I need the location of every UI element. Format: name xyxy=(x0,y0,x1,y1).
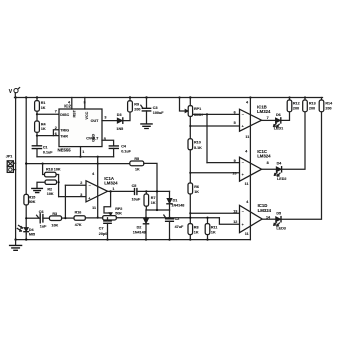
capacitor C5 xyxy=(132,184,141,202)
resistor R8 xyxy=(188,217,199,239)
wire bottom ground bus xyxy=(16,239,251,241)
svg-text:R15: R15 xyxy=(29,196,36,200)
svg-text:9: 9 xyxy=(234,159,236,163)
svg-text:+: + xyxy=(88,196,90,200)
svg-text:1N5: 1N5 xyxy=(116,127,123,131)
wire R1 to R4 with DISC tap xyxy=(36,111,38,121)
wire R16 to RP2 xyxy=(85,217,102,219)
svg-text:R2: R2 xyxy=(47,188,52,192)
svg-text:NE555: NE555 xyxy=(58,147,72,152)
wire C6 to R3 xyxy=(43,217,50,219)
wire to IC1A plus input xyxy=(59,196,86,198)
LED D4 LED2 xyxy=(274,162,286,181)
resistor R15 xyxy=(24,194,36,205)
resistor R7 xyxy=(144,191,156,210)
diode D2 1N4148 xyxy=(133,210,149,240)
wire TRIG loop xyxy=(53,130,59,136)
svg-text:−: − xyxy=(242,161,244,165)
svg-text:1uF: 1uF xyxy=(40,225,47,229)
wire detector node y210 xyxy=(146,209,170,211)
svg-text:11: 11 xyxy=(92,206,96,210)
svg-text:50K: 50K xyxy=(29,200,36,204)
svg-text:50K: 50K xyxy=(115,211,122,215)
svg-text:13: 13 xyxy=(233,210,237,214)
svg-text:LM324: LM324 xyxy=(104,181,118,186)
wire rail x=26 below R15 xyxy=(25,205,27,227)
ground bottom-left xyxy=(10,240,22,251)
svg-text:R11: R11 xyxy=(211,225,218,229)
svg-text:R5: R5 xyxy=(134,157,139,161)
photodiode D4 MI5 xyxy=(17,225,35,236)
node junction dots on top rail xyxy=(14,96,306,98)
svg-text:1: 1 xyxy=(112,187,114,191)
svg-text:10: 10 xyxy=(232,171,236,175)
svg-text:20p0: 20p0 xyxy=(99,232,107,236)
svg-text:0.1uF: 0.1uF xyxy=(121,150,131,154)
svg-text:DISC: DISC xyxy=(60,113,69,117)
svg-text:JP1: JP1 xyxy=(6,155,13,159)
wire DISC tap xyxy=(37,113,59,115)
potentiometer RP1 500K xyxy=(180,98,204,117)
resistor R10 xyxy=(188,139,202,150)
svg-text:5.1K: 5.1K xyxy=(194,146,202,150)
potentiometer RP2 50K xyxy=(103,207,123,220)
svg-text:−: − xyxy=(242,210,244,214)
resistor R3 xyxy=(49,212,61,228)
wire to IC1C pin9 xyxy=(207,162,240,164)
wire IC1A minus input xyxy=(65,184,86,186)
svg-text:RST: RST xyxy=(72,109,76,117)
svg-text:−: − xyxy=(242,113,244,117)
svg-text:1K: 1K xyxy=(211,230,216,234)
svg-text:100uF: 100uF xyxy=(153,111,164,115)
wire 555 pin8 stub xyxy=(84,98,86,110)
wire RP1 to comparator bus xyxy=(193,113,240,115)
svg-text:3: 3 xyxy=(80,193,82,197)
svg-text:8: 8 xyxy=(267,161,269,165)
svg-text:10uF: 10uF xyxy=(132,197,141,201)
svg-text:12: 12 xyxy=(233,220,237,224)
svg-text:R1: R1 xyxy=(41,101,46,105)
wire IC1A power vertical x97.7 xyxy=(97,157,99,218)
resistor R1 xyxy=(35,98,46,112)
wire R2 left to ground xyxy=(37,182,45,188)
svg-text:1K: 1K xyxy=(41,106,46,110)
resistor R9 xyxy=(128,98,141,113)
wire bus B xyxy=(26,163,130,165)
wire IC1A output xyxy=(108,190,135,192)
svg-text:1K: 1K xyxy=(135,167,140,171)
svg-text:7: 7 xyxy=(55,110,57,114)
svg-text:D2: D2 xyxy=(137,226,142,230)
wire rail x=26 upper segment xyxy=(25,98,27,195)
svg-text:R18 10K: R18 10K xyxy=(46,168,61,172)
resistor R4 xyxy=(35,121,47,132)
svg-text:200: 200 xyxy=(293,107,299,111)
svg-text:7: 7 xyxy=(267,116,269,120)
svg-text:C1: C1 xyxy=(43,145,48,149)
capacitor C4 xyxy=(102,140,132,156)
svg-text:+: + xyxy=(242,223,244,227)
svg-text:R7: R7 xyxy=(151,196,156,200)
svg-text:1N4148: 1N4148 xyxy=(171,204,184,208)
resistor R5 xyxy=(130,157,144,171)
wire LED1 to R12 xyxy=(281,112,290,121)
wire 555 pin4 stub xyxy=(71,98,73,110)
wire LED2 to R13 xyxy=(282,112,305,170)
wire x65 vertical to signal bus xyxy=(64,185,66,218)
wire to IC1C pin10 xyxy=(190,172,239,174)
svg-text:47uF: 47uF xyxy=(175,225,184,229)
resistor R6 xyxy=(188,183,199,194)
svg-text:2: 2 xyxy=(80,181,82,185)
op-amp IC1C xyxy=(232,149,271,186)
wire IC1B output xyxy=(262,119,276,121)
svg-text:6: 6 xyxy=(234,111,236,115)
svg-text:R3: R3 xyxy=(52,212,57,216)
wire LM324 power vertical xyxy=(249,98,251,240)
svg-text:200: 200 xyxy=(325,107,331,111)
svg-text:+: + xyxy=(242,173,244,177)
wire R4 to C1 with THR tap xyxy=(36,132,38,145)
svg-text:D6: D6 xyxy=(276,113,281,117)
op-amp IC1A xyxy=(80,172,118,210)
svg-text:LED1: LED1 xyxy=(274,127,283,131)
capacitor C6 xyxy=(37,210,48,229)
svg-text:THR: THR xyxy=(60,135,68,139)
wire R3 to R16 xyxy=(62,217,74,219)
svg-text:LM324: LM324 xyxy=(257,109,271,114)
wire rail x=26 bottom xyxy=(25,234,27,240)
op-amp IC1B xyxy=(234,101,271,140)
svg-text:10K: 10K xyxy=(51,224,58,228)
svg-text:10K: 10K xyxy=(47,192,54,196)
svg-text:1N4148: 1N4148 xyxy=(133,231,146,235)
svg-text:R12: R12 xyxy=(293,102,300,106)
svg-text:C2: C2 xyxy=(175,217,180,221)
feedback loop to RP2 wiper xyxy=(104,191,111,213)
svg-text:2: 2 xyxy=(55,126,57,130)
svg-text:1K: 1K xyxy=(194,190,199,194)
svg-text:D3: D3 xyxy=(117,113,122,117)
svg-text:LM324: LM324 xyxy=(257,154,271,159)
wire D3 to R9 xyxy=(123,112,130,121)
svg-text:−: − xyxy=(89,184,91,188)
wire R5 right corner down xyxy=(144,163,157,210)
resistor R16 xyxy=(74,210,85,227)
wire bus corner to IC1D pin12 xyxy=(219,218,239,225)
svg-text:3: 3 xyxy=(104,116,106,120)
capacitor C2 electrolytic xyxy=(164,210,184,240)
wire 555 OUT xyxy=(102,120,117,122)
svg-text:GND: GND xyxy=(92,133,96,142)
resistor R11 xyxy=(205,217,217,239)
svg-text:R6: R6 xyxy=(194,185,199,189)
resistor R14 xyxy=(319,98,333,112)
LED D5 LED3 xyxy=(274,212,286,231)
svg-text:C6: C6 xyxy=(39,210,44,214)
wire to IC1D pin13 xyxy=(190,212,239,214)
svg-text:6: 6 xyxy=(55,132,57,136)
svg-text:1: 1 xyxy=(82,150,84,154)
capacitor C3 electrolytic xyxy=(141,98,164,124)
svg-text:LED3: LED3 xyxy=(276,227,285,231)
svg-text:200: 200 xyxy=(134,107,140,111)
svg-text:0.1uF: 0.1uF xyxy=(43,150,53,154)
wire R6 down with pin13 tap xyxy=(189,194,191,217)
svg-text:200: 200 xyxy=(309,107,315,111)
svg-text:1K: 1K xyxy=(151,201,156,205)
resistor R2 xyxy=(45,180,57,196)
svg-text:R16: R16 xyxy=(75,210,82,214)
svg-text:47K: 47K xyxy=(75,223,82,227)
wire ground bus A xyxy=(37,156,114,158)
wire RP1 bottom to R10 with pin5 tap xyxy=(189,117,191,139)
resistor R12 xyxy=(287,98,299,112)
wire left vertical rail x=15 xyxy=(15,98,17,240)
wire to IC1B pin5 xyxy=(190,125,239,127)
wire signal bus right of RP2 xyxy=(116,217,219,219)
wire IC1C output xyxy=(262,168,276,170)
svg-text:D1: D1 xyxy=(173,198,178,202)
svg-text:C5: C5 xyxy=(132,184,137,188)
wire R10 to R6 with pin10 tap xyxy=(189,150,191,183)
svg-text:+: + xyxy=(242,124,244,128)
svg-text:C7: C7 xyxy=(99,227,104,231)
op-amp IC1D xyxy=(233,200,271,236)
wire R18 right to junction xyxy=(56,175,59,197)
svg-text:R10: R10 xyxy=(194,140,201,144)
wire x207 vertical xyxy=(206,114,208,162)
node dots bottom bus xyxy=(14,238,208,240)
svg-text:OUT: OUT xyxy=(91,119,100,123)
svg-text:TRIG: TRIG xyxy=(60,129,69,133)
wire 555 GND pin stub xyxy=(80,147,82,157)
wire top V+ rail xyxy=(15,97,323,99)
svg-text:1K: 1K xyxy=(194,230,199,234)
wire C5 to D1 xyxy=(137,190,170,192)
wire LED3 to R14 xyxy=(281,112,322,219)
svg-text:R8: R8 xyxy=(194,225,199,229)
svg-text:1K: 1K xyxy=(41,127,46,131)
capacitor C7 xyxy=(99,218,111,240)
svg-text:C3: C3 xyxy=(153,106,158,110)
ground under R2 xyxy=(32,188,43,192)
svg-text:11: 11 xyxy=(245,135,249,139)
wire THR tap xyxy=(37,135,59,137)
svg-text:MI5: MI5 xyxy=(29,232,35,236)
svg-text:LM324: LM324 xyxy=(258,208,272,213)
svg-text:11: 11 xyxy=(245,182,249,186)
capacitor C1 xyxy=(32,145,53,156)
svg-text:RP2: RP2 xyxy=(115,207,122,211)
svg-text:VCC: VCC xyxy=(85,111,89,119)
IC 555 timer IC2 xyxy=(55,100,107,153)
svg-text:LED2: LED2 xyxy=(277,177,286,181)
svg-text:R14: R14 xyxy=(325,102,333,106)
diode D1 1N4148 xyxy=(167,191,184,210)
wire IC1D output xyxy=(262,218,275,220)
resistor R13 xyxy=(303,98,316,112)
svg-text:5: 5 xyxy=(234,121,236,125)
LED D6 LED1 xyxy=(274,113,284,131)
connector JP1 xyxy=(6,155,16,173)
ground under C3 xyxy=(141,124,152,129)
resistor R18 xyxy=(43,164,61,177)
node V+ terminal xyxy=(9,88,20,98)
svg-text:D5: D5 xyxy=(276,212,281,216)
svg-text:RP1: RP1 xyxy=(194,107,201,111)
diode D3 xyxy=(116,113,123,131)
svg-text:R13: R13 xyxy=(309,102,316,106)
svg-text:11: 11 xyxy=(245,232,249,236)
wire signal bus left xyxy=(26,217,39,219)
svg-text:R9: R9 xyxy=(134,103,139,107)
